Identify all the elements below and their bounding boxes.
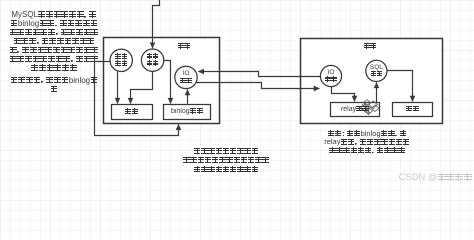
IO thread circle (slave) IO线程 [320,65,341,86]
wire S3: SQL thread to slave data box [387,71,413,102]
label IO线程 (master) [173,70,200,84]
label relay日志 [331,106,381,113]
wire A4: work thread 2 to binlog box top [164,61,171,104]
bottom middle note 一定会导致一个问题... [171,146,281,174]
data box (slave) 数据 [393,103,433,117]
label SQL线程 [363,64,390,78]
SQL thread circle SQL线程 [366,60,387,81]
wire A2: work thread 1 down to data box [117,72,119,104]
master box 主库 [104,38,220,124]
label 从库 [355,43,385,50]
watermark CSDN @闰土小蒋 [372,171,472,182]
left paragraph text MySQL里有一个概念... [2,11,106,95]
label IO线程 (slave) [318,69,345,83]
label 工作线程 (circle 1) [108,53,135,67]
wire W2: master IO thread to slave IO thread (arrow right) [196,83,319,89]
work thread circle 1 工作线程 [110,49,132,71]
label 数据 (master) [111,108,152,115]
relay log box relay日志 [331,103,380,117]
wire S1: slave IO thread to relay log box [332,87,355,102]
bottom right note 从库：读取binlog日志... [317,130,417,156]
label 主库 [169,43,199,50]
slave box 从库 [301,39,443,124]
label binlog日志 [163,108,211,115]
work thread circle 2 工作线程 [141,49,163,71]
wire A1: from top into work thread 2 [153,0,160,48]
wire W1: slave IO thread to master IO thread (arrow left) [198,72,320,77]
label 工作线程 (circle 2) [139,53,166,67]
wire A3: work thread 2 down to data box [131,72,153,104]
wire A5: binlog box up to IO thread [187,90,189,104]
wire A6: work thread 1 wrap-around to binlog box bottom [95,62,179,136]
data box (master) 数据 [112,105,153,120]
label 数据 (slave) [392,106,433,113]
binlog log box binlog日志 [164,105,211,120]
scribble doodle on relay log box [360,100,379,115]
wire S2: relay log box up to SQL thread [376,82,378,102]
IO thread circle (master) IO线程 [175,66,197,88]
